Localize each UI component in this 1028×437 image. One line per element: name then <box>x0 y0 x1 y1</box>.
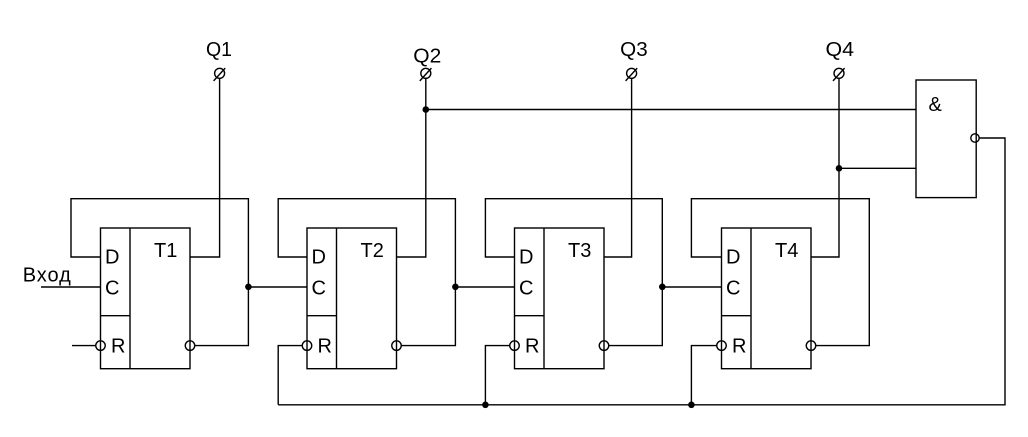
junction node reset bus / T3 R <box>482 402 489 409</box>
wire T1 feedback Q-bar to D <box>71 199 248 346</box>
terminal Q4 <box>833 68 845 81</box>
svg-text:Q1: Q1 <box>206 39 232 61</box>
flip-flop T1 body <box>101 228 191 369</box>
svg-text:D: D <box>726 246 740 268</box>
svg-text:R: R <box>318 336 332 358</box>
flip-flop T2 body <box>307 228 397 369</box>
wire T1 R stub <box>72 345 96 347</box>
T1 inverted output bubble <box>185 341 195 351</box>
wire T2 R to reset bus <box>278 346 302 405</box>
svg-text:T2: T2 <box>361 240 384 262</box>
AND gate DD1 body <box>916 80 976 198</box>
wire T2 node to T3 pin C <box>455 286 514 288</box>
T1 reset input bubble <box>96 341 106 351</box>
junction node Q2 branch <box>423 106 430 113</box>
wire T3 feedback Q-bar to D <box>485 199 662 346</box>
svg-text:R: R <box>732 336 746 358</box>
svg-text:Q3: Q3 <box>620 39 648 61</box>
junction node T1 output <box>245 284 252 291</box>
T3 inverted output bubble <box>599 341 609 351</box>
wire T4 R to reset bus <box>691 346 716 405</box>
svg-text:T3: T3 <box>568 240 591 262</box>
svg-text:Q4: Q4 <box>826 39 855 61</box>
svg-text:C: C <box>519 277 533 299</box>
wire T4 feedback Q-bar to D <box>691 199 869 346</box>
wire T2 Q output to terminal Q2 <box>397 78 426 257</box>
svg-text:T4: T4 <box>775 240 798 262</box>
junction node Q4 branch <box>836 165 843 172</box>
svg-text:R: R <box>111 336 125 358</box>
wire Q4 to AND input 2 <box>839 167 916 169</box>
terminal Q2 <box>420 68 432 81</box>
terminal Q3 <box>626 68 638 81</box>
svg-text:C: C <box>726 277 740 299</box>
wire T3 R to reset bus <box>485 346 509 405</box>
svg-text:C: C <box>105 277 119 299</box>
T4 reset input bubble <box>717 341 727 351</box>
T4 inverted output bubble <box>806 341 816 351</box>
svg-text:D: D <box>312 246 326 268</box>
svg-text:D: D <box>105 246 119 268</box>
wire Q2 to AND input 1 <box>426 109 916 111</box>
junction node T2 output <box>452 284 459 291</box>
flip-flop T4 body <box>722 228 812 369</box>
svg-text:Q2: Q2 <box>413 46 441 68</box>
wire T4 Q output to terminal Q4 <box>811 78 839 257</box>
svg-text:R: R <box>525 336 539 358</box>
T2 reset input bubble <box>302 341 312 351</box>
wire T1 Q output to terminal Q1 <box>190 78 220 257</box>
AND gate inverted output bubble <box>971 134 979 142</box>
wire AND output to reset bus <box>278 138 1005 405</box>
svg-text:T1: T1 <box>154 240 177 262</box>
T3 reset input bubble <box>510 341 520 351</box>
svg-text:Вход: Вход <box>23 265 72 287</box>
wire T1 node to T2 pin C <box>248 286 307 288</box>
svg-text:C: C <box>312 277 326 299</box>
junction node reset bus / T4 R <box>688 402 695 409</box>
T2 inverted output bubble <box>392 341 402 351</box>
wire T2 feedback Q-bar to D <box>278 199 455 346</box>
svg-text:&: & <box>929 94 943 116</box>
terminal Q1 <box>214 68 226 81</box>
svg-text:D: D <box>519 246 533 268</box>
wire T3 Q output to terminal Q3 <box>604 78 632 257</box>
wire T3 node to T4 pin C <box>662 286 721 288</box>
junction node T3 output <box>659 284 666 291</box>
flip-flop T3 body <box>515 228 605 369</box>
wire input to T1 pin C <box>41 286 101 288</box>
